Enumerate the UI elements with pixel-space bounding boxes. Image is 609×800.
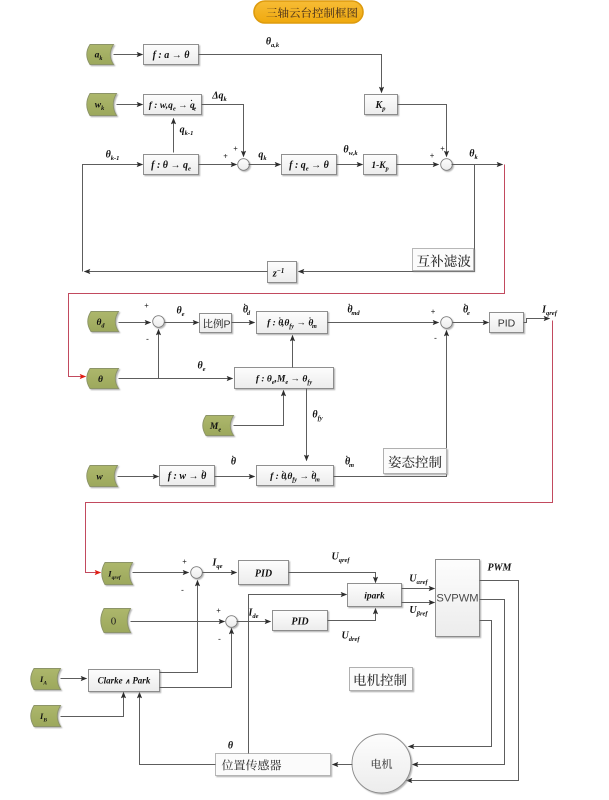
svg-text:w: w bbox=[96, 473, 103, 483]
wire θ̇ → lower block bbox=[215, 476, 255, 478]
svg-text:+: + bbox=[144, 302, 149, 311]
svg-text:PID: PID bbox=[291, 617, 308, 628]
svg-text:θ·​md​: θ·​md​ bbox=[347, 300, 360, 317]
summing junction S6 bbox=[226, 616, 238, 628]
svg-text:θ·​m​: θ·​m​ bbox=[345, 452, 354, 469]
wire U_βref → SVPWM bbox=[402, 602, 435, 604]
input w_k (stored data shape) bbox=[87, 94, 117, 116]
label box 姿态控制 (attitude control) bbox=[384, 449, 447, 474]
wire θ → f:θ_e,M_e→θ_fy bbox=[119, 378, 233, 380]
wire U_dref → ipark bottom bbox=[328, 609, 376, 621]
block f:θ̇,θ_fy→θ̇_m (upper) bbox=[257, 312, 328, 334]
svg-text:θe​: θe​ bbox=[197, 361, 205, 374]
svg-text:Clarke ∧ Park: Clarke ∧ Park bbox=[98, 676, 151, 686]
wire w → f:w→θ̇ bbox=[118, 476, 159, 478]
wire PWM phase A → motor bbox=[407, 581, 519, 781]
wire I_de → PID d bbox=[237, 621, 271, 623]
wire I_d feedback → S6 minus bbox=[160, 629, 232, 688]
block PID (attitude rate) bbox=[490, 313, 524, 333]
block f:θ_e,M_e→θ_fy bbox=[235, 368, 334, 389]
svg-text:f : a → θ: f : a → θ bbox=[153, 50, 191, 61]
svg-text:PID: PID bbox=[255, 569, 272, 580]
wire θ_d → S3 bbox=[119, 322, 151, 324]
summing junction S4 bbox=[441, 317, 453, 329]
svg-text:ipark: ipark bbox=[364, 592, 385, 602]
wire PWM phase C → motor bbox=[409, 621, 492, 747]
red wire θ_k → θ (attitude feedback) bbox=[69, 165, 505, 377]
svg-text:θa,k​: θa,k​ bbox=[266, 37, 280, 50]
svg-text:+: + bbox=[430, 152, 435, 161]
block SVPWM bbox=[436, 560, 480, 637]
input 0 (stored data shape) bbox=[101, 609, 131, 633]
svg-text:Ide​: Ide​ bbox=[247, 608, 258, 621]
block ipark (inverse Park) bbox=[348, 584, 402, 607]
input I_qref (stored data shape) bbox=[102, 563, 133, 585]
svg-text:Uαref​: Uαref​ bbox=[409, 574, 428, 587]
svg-text:Udref​: Udref​ bbox=[341, 631, 360, 644]
wire θ branch up → S3 minus bbox=[158, 330, 160, 379]
svg-text:θ·​: θ·​ bbox=[231, 452, 237, 467]
block 1-K_p bbox=[364, 155, 397, 175]
block f:w→θ̇ bbox=[160, 466, 215, 486]
block f:w,q_e→q̇_e bbox=[144, 95, 202, 115]
svg-text:+: + bbox=[216, 607, 221, 616]
svg-text:θw,k​: θw,k​ bbox=[343, 145, 358, 158]
svg-text:0: 0 bbox=[111, 616, 117, 628]
svg-text:θ: θ bbox=[98, 375, 103, 385]
wire θ_e → 比例P bbox=[165, 322, 199, 324]
svg-text:-: - bbox=[218, 635, 221, 644]
svg-text:-: - bbox=[181, 586, 184, 595]
svg-text:θe​: θe​ bbox=[176, 306, 184, 319]
svg-text:qk​: qk​ bbox=[258, 150, 267, 163]
wire θ̇_d → block bbox=[232, 322, 255, 324]
svg-text:f : qe​ → θ: f : qe​ → θ bbox=[289, 160, 330, 173]
svg-text:θk-1​: θk-1​ bbox=[106, 150, 120, 163]
block PID (d current) bbox=[273, 611, 328, 631]
wire a_k → f:a→θ bbox=[114, 54, 143, 56]
svg-text:+: + bbox=[233, 145, 238, 154]
svg-text:+: + bbox=[431, 308, 436, 317]
wire I_qref → S5 bbox=[133, 572, 189, 574]
text 比例 bbox=[204, 319, 223, 329]
svg-text:Uqref​: Uqref​ bbox=[331, 552, 350, 565]
wire sensor → Clarke∧Park bbox=[140, 693, 216, 765]
input I_A (stored data shape) bbox=[31, 669, 61, 690]
input M_e (stored data shape) bbox=[203, 416, 234, 436]
summing junction S1 bbox=[238, 159, 250, 171]
svg-text:qk-1​: qk-1​ bbox=[180, 125, 194, 138]
wire 0 → S6 bbox=[131, 621, 225, 623]
wire Δq_k → summing junction S1 bbox=[202, 105, 244, 157]
wire U_qref → ipark top bbox=[289, 573, 376, 583]
svg-text:Uβref​: Uβref​ bbox=[409, 605, 428, 618]
svg-text:+: + bbox=[223, 152, 228, 161]
svg-text:+: + bbox=[440, 145, 445, 154]
wire θ_k-1 up → f:θ→q_e bbox=[83, 165, 143, 272]
input w (stored data shape) bbox=[87, 466, 118, 487]
title pill 三轴云台控制框图 bbox=[254, 1, 363, 23]
input θ (stored data shape) bbox=[87, 369, 119, 389]
wire θ̇_e → PID bbox=[453, 322, 489, 324]
svg-text:θk​: θk​ bbox=[469, 149, 478, 162]
block Z^-1 bbox=[268, 262, 297, 283]
svg-text:SVPWM: SVPWM bbox=[436, 593, 478, 605]
svg-text:PWM: PWM bbox=[488, 563, 513, 574]
svg-text:f : θe​,Me​ → θfy​: f : θe​,Me​ → θfy​ bbox=[256, 375, 313, 387]
wire I_B → Clarke∧Park bbox=[61, 693, 124, 717]
text 电机 bbox=[372, 759, 392, 769]
block 比例P (proportional) bbox=[200, 314, 232, 333]
wire feedback θ_k → Z^-1 bbox=[299, 165, 475, 272]
block f:θ→q_e bbox=[144, 155, 199, 175]
block f:a→θ bbox=[144, 45, 199, 65]
summing junction S5 bbox=[191, 567, 203, 579]
wire θ̇_m → S4 minus bbox=[334, 331, 447, 477]
wire θ_w,k → 1-K_p bbox=[337, 164, 363, 166]
wire q_k-1 f:θ→q_e → f:w,q_e→q̇_e bbox=[173, 119, 175, 153]
wire PWM phase B → motor bbox=[413, 600, 505, 765]
svg-text:f : θ → qe​: f : θ → qe​ bbox=[151, 160, 191, 173]
svg-text:-: - bbox=[434, 334, 437, 343]
wire q_k → f:q_e→θ bbox=[249, 164, 281, 166]
wire K_p → summing junction S2 bbox=[398, 105, 447, 157]
svg-text:+: + bbox=[182, 558, 187, 567]
wire θ → ipark bbox=[249, 595, 347, 754]
wire I_q feedback → S5 minus bbox=[160, 581, 198, 673]
motor circle 电机 bbox=[352, 734, 411, 793]
wire f:θ→q_e → S1 bbox=[199, 164, 237, 166]
block Clarke ∧ Park bbox=[89, 670, 160, 692]
svg-text:θ·​d​: θ·​d​ bbox=[243, 300, 251, 317]
wire f:θ_e,M_e→θ_fy → upper block bbox=[292, 336, 294, 368]
block f:q_e→θ bbox=[282, 155, 337, 175]
label box 电机控制 (motor control) bbox=[350, 668, 413, 691]
svg-text:P: P bbox=[224, 319, 231, 331]
svg-text:θfy​: θfy​ bbox=[312, 410, 322, 423]
svg-text:Δqk​: Δqk​ bbox=[211, 91, 227, 104]
wire θ_fy down → lower block bbox=[306, 389, 308, 461]
wire U_αref → SVPWM bbox=[402, 588, 435, 590]
wire f:a→θ → K_p (θ_a,k) bbox=[199, 55, 382, 93]
svg-text:θ: θ bbox=[228, 741, 234, 752]
svg-text:Iqref​: Iqref​ bbox=[541, 305, 558, 318]
wire PID out I_qref bbox=[524, 319, 550, 323]
wire M_e → f:θ_e,M_e→θ_fy bbox=[234, 391, 284, 426]
wire θ̇_md → S4 bbox=[328, 322, 439, 324]
input a_k (stored data shape) bbox=[87, 45, 114, 65]
input θ_d (stored data shape) bbox=[88, 312, 119, 332]
svg-text:θ·​e​: θ·​e​ bbox=[463, 300, 470, 317]
svg-text:PID: PID bbox=[498, 318, 516, 330]
svg-text:-: - bbox=[146, 335, 149, 344]
text 位置传感器 bbox=[222, 759, 281, 770]
input I_B (stored data shape) bbox=[31, 706, 61, 727]
label box 互补滤波 (complementary filter) bbox=[413, 249, 474, 271]
wire I_qe → PID q bbox=[203, 572, 237, 574]
block 位置传感器 (position sensor) bbox=[216, 754, 331, 776]
wire θ_k output bbox=[452, 164, 503, 166]
block K_p bbox=[365, 95, 398, 115]
summing junction S2 bbox=[441, 159, 453, 171]
summing junction S3 bbox=[153, 316, 165, 328]
wire Z^-1 → left corner bbox=[85, 271, 268, 273]
wire I_A → Clarke∧Park bbox=[61, 678, 87, 680]
wire w_k → block bbox=[117, 104, 143, 106]
red wire I_qref → current loop bbox=[86, 321, 553, 573]
block f:θ̇,θ_fy→θ̇_m (lower) bbox=[257, 466, 334, 486]
block PID (q current) bbox=[239, 561, 289, 585]
wire motor → position sensor bbox=[333, 764, 353, 766]
svg-text:Iqe​: Iqe​ bbox=[211, 558, 222, 571]
wire 1-K_p → S2 bbox=[397, 164, 439, 166]
